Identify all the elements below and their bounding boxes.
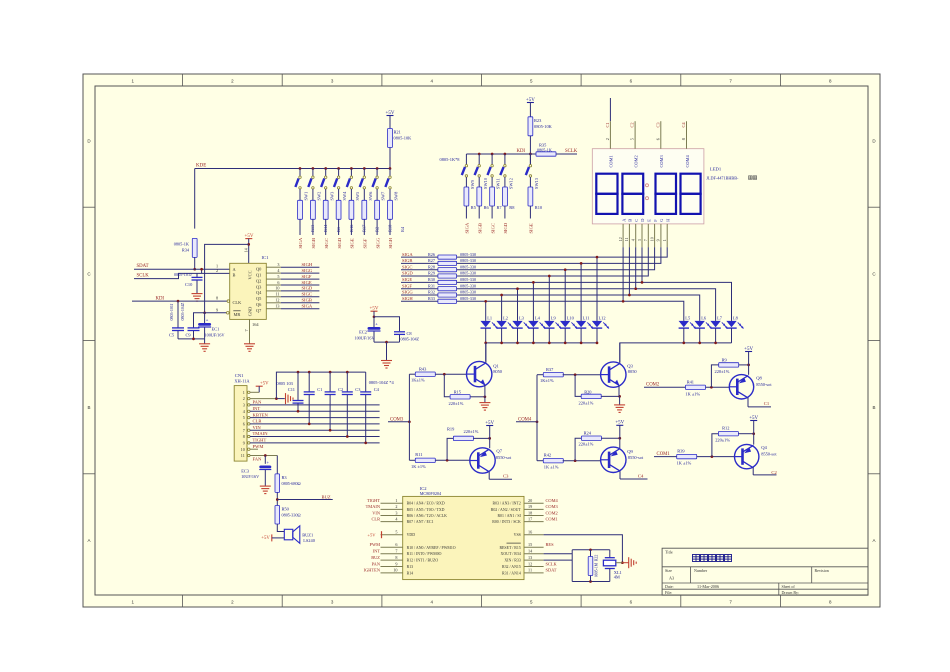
pin 12 bbox=[502, 561, 544, 569]
svg-text:+5V: +5V bbox=[367, 532, 376, 537]
svg-text:10UF/16V: 10UF/16V bbox=[241, 474, 259, 479]
node C3 bbox=[655, 122, 660, 128]
svg-text:11-Mar-2006: 11-Mar-2006 bbox=[697, 584, 719, 589]
pin 4 bbox=[381, 516, 434, 524]
switch SW2 bbox=[308, 169, 321, 201]
svg-text:1: 1 bbox=[395, 498, 397, 503]
svg-text:INT: INT bbox=[373, 549, 381, 554]
svg-text:SW13: SW13 bbox=[534, 177, 539, 189]
resistor R32 bbox=[428, 290, 476, 297]
transistor Q8 bbox=[729, 375, 773, 407]
switch SW1 bbox=[295, 169, 308, 201]
resistor R8 bbox=[503, 187, 516, 210]
wire bbox=[484, 300, 487, 321]
svg-text:SIGC: SIGC bbox=[402, 264, 412, 269]
svg-text:Q3: Q3 bbox=[627, 363, 633, 368]
wire bbox=[338, 189, 340, 200]
svg-text:R07 / AN7 / EC1: R07 / AN7 / EC1 bbox=[407, 520, 434, 524]
svg-text:KBTEN: KBTEN bbox=[253, 412, 269, 417]
svg-text:SW11: SW11 bbox=[496, 178, 501, 189]
svg-text:PWM: PWM bbox=[253, 444, 264, 449]
pin 3 (segment D) bbox=[637, 219, 645, 248]
resistor R10 bbox=[528, 187, 543, 210]
LED L5 bbox=[679, 316, 696, 343]
node C2 bbox=[771, 470, 777, 475]
wire bbox=[544, 548, 610, 581]
svg-text:8550-sot: 8550-sot bbox=[761, 452, 777, 457]
node TIGHT bbox=[367, 498, 380, 503]
svg-text:VIN: VIN bbox=[372, 510, 381, 515]
transistor Q4 bbox=[734, 444, 777, 475]
wire bbox=[634, 287, 715, 321]
svg-text:3: 3 bbox=[243, 403, 245, 408]
svg-text:8: 8 bbox=[216, 296, 218, 301]
svg-text:CLR: CLR bbox=[253, 419, 263, 424]
wire bbox=[389, 148, 391, 169]
svg-text:11: 11 bbox=[624, 237, 629, 241]
svg-text:C11: C11 bbox=[288, 387, 295, 392]
pin 1 (segment H) bbox=[662, 218, 670, 248]
wire bbox=[299, 219, 301, 235]
svg-text:1: 1 bbox=[243, 390, 245, 395]
svg-text:A: A bbox=[872, 538, 875, 543]
pin 8 (COM4) bbox=[681, 121, 687, 149]
pin 19 bbox=[491, 504, 544, 512]
power +5V (EC2) bbox=[370, 307, 379, 319]
wire bbox=[739, 364, 750, 367]
svg-text:L7: L7 bbox=[717, 316, 723, 321]
wire bbox=[457, 247, 661, 263]
wire bbox=[435, 438, 470, 461]
svg-text:R34: R34 bbox=[182, 248, 190, 253]
node KDI bus bbox=[466, 149, 536, 155]
svg-text:Q8: Q8 bbox=[756, 375, 762, 380]
wire bbox=[363, 219, 365, 235]
svg-text:+5V: +5V bbox=[485, 421, 494, 426]
svg-text:BUZ1: BUZ1 bbox=[302, 533, 313, 538]
svg-text:R22: R22 bbox=[594, 555, 599, 562]
node COM3 bbox=[546, 504, 559, 509]
svg-text:SIGG: SIGG bbox=[302, 268, 313, 273]
svg-text:L5: L5 bbox=[685, 316, 691, 321]
pin 12 (Q6) bbox=[266, 298, 319, 303]
svg-text:EC2: EC2 bbox=[359, 330, 367, 335]
crystal XL1 bbox=[603, 550, 622, 582]
svg-text:3: 3 bbox=[277, 262, 279, 267]
svg-text:R8: R8 bbox=[509, 205, 515, 210]
svg-text:R10: R10 bbox=[535, 205, 543, 210]
pin 6 bbox=[243, 422, 380, 427]
connector CN1 XH-11A body bbox=[234, 373, 250, 461]
node SIGF bbox=[302, 274, 312, 279]
svg-text:R20: R20 bbox=[584, 389, 592, 394]
wire bbox=[389, 189, 391, 200]
svg-text:11: 11 bbox=[241, 453, 245, 458]
LED L7 bbox=[710, 316, 727, 343]
pin 10 (Q4) bbox=[266, 286, 319, 291]
resistor R33 bbox=[428, 296, 476, 303]
wire bbox=[470, 395, 486, 398]
svg-text:0805-104Z: 0805-104Z bbox=[401, 336, 420, 341]
node COM4 bbox=[516, 417, 538, 423]
svg-text:1K ±1%: 1K ±1% bbox=[677, 460, 692, 465]
LED L4 bbox=[528, 316, 545, 343]
wire bbox=[532, 281, 535, 321]
svg-text:L8: L8 bbox=[733, 316, 739, 321]
node COM1 bbox=[546, 516, 558, 521]
pin 5 (COM2) bbox=[630, 121, 636, 149]
svg-text:R12 / INT1 / BUZO: R12 / INT1 / BUZO bbox=[407, 559, 439, 563]
wire bbox=[408, 374, 410, 460]
LED L8 bbox=[726, 316, 743, 343]
svg-text:SW8: SW8 bbox=[394, 191, 399, 201]
svg-text:0805-330Ω: 0805-330Ω bbox=[282, 513, 301, 518]
svg-text:0805-104Z *4: 0805-104Z *4 bbox=[369, 380, 395, 385]
wire bbox=[465, 206, 467, 219]
svg-text:R02 / AN2 / SOUT: R02 / AN2 / SOUT bbox=[491, 508, 522, 512]
svg-text:XOUT / R34: XOUT / R34 bbox=[501, 552, 521, 556]
resistor R24 bbox=[579, 430, 602, 446]
node CLR bbox=[371, 516, 380, 521]
svg-text:COM3: COM3 bbox=[546, 504, 559, 509]
svg-text:C4: C4 bbox=[638, 474, 644, 479]
LED L12 bbox=[592, 316, 609, 343]
resistor R4 bbox=[388, 200, 406, 232]
svg-text:R39: R39 bbox=[677, 448, 685, 453]
wire bbox=[350, 219, 352, 235]
transistor Q1 bbox=[467, 343, 503, 397]
svg-text:SW10: SW10 bbox=[483, 177, 488, 189]
pin 9 bbox=[381, 561, 414, 569]
svg-text:R10 / AN0 / AVREF / PWM1O: R10 / AN0 / AVREF / PWM1O bbox=[407, 546, 456, 550]
svg-text:20: 20 bbox=[528, 498, 532, 503]
pin 18 bbox=[497, 510, 543, 518]
svg-text:R14: R14 bbox=[407, 571, 414, 575]
svg-text:0805-330: 0805-330 bbox=[460, 258, 476, 263]
svg-text:+5V: +5V bbox=[749, 416, 758, 421]
svg-text:13: 13 bbox=[275, 304, 279, 309]
svg-text:R3: R3 bbox=[282, 475, 288, 480]
capacitor C3 bbox=[342, 372, 361, 438]
ground bbox=[381, 361, 392, 369]
svg-text:C5: C5 bbox=[169, 333, 175, 338]
wire bbox=[620, 342, 732, 362]
wire bbox=[457, 247, 655, 269]
svg-text:Q1: Q1 bbox=[256, 272, 261, 277]
node BUZ bbox=[371, 555, 380, 560]
wire bbox=[200, 268, 203, 274]
capacitor C11 bbox=[276, 372, 303, 412]
svg-text:R32 / AN15: R32 / AN15 bbox=[502, 565, 521, 569]
wire bbox=[484, 342, 598, 362]
node SIGB bbox=[401, 258, 438, 263]
node COM2 bbox=[644, 383, 685, 388]
svg-text:SIGA: SIGA bbox=[465, 222, 470, 233]
svg-text:Revision: Revision bbox=[815, 568, 829, 573]
node TMAIN bbox=[366, 504, 381, 509]
wire bbox=[641, 281, 732, 321]
svg-text:SW6: SW6 bbox=[368, 191, 373, 201]
pin 2 (COM1) bbox=[605, 98, 611, 149]
capacitor C2 bbox=[325, 372, 344, 431]
resistor R19 bbox=[447, 427, 479, 441]
svg-text:PWM: PWM bbox=[370, 542, 381, 547]
svg-text:8550-sot: 8550-sot bbox=[628, 455, 644, 460]
wire bbox=[194, 169, 196, 229]
svg-text:R30: R30 bbox=[428, 277, 435, 282]
svg-text:+5V: +5V bbox=[744, 347, 753, 352]
display digit 4 bbox=[681, 174, 701, 214]
resistor R28 bbox=[428, 264, 476, 271]
svg-text:R7: R7 bbox=[497, 205, 503, 210]
svg-text:R37: R37 bbox=[546, 367, 554, 372]
svg-text:3: 3 bbox=[395, 510, 397, 515]
svg-text:IC1: IC1 bbox=[262, 255, 270, 260]
svg-text:A: A bbox=[87, 538, 90, 543]
svg-text:5: 5 bbox=[277, 274, 279, 279]
svg-text:SIGG: SIGG bbox=[375, 237, 380, 248]
wire bbox=[504, 206, 506, 219]
svg-text:PAN: PAN bbox=[372, 561, 381, 566]
power +5V (Q4) bbox=[749, 416, 758, 445]
svg-text:SIGH: SIGH bbox=[302, 262, 313, 267]
svg-text:SIGA: SIGA bbox=[298, 237, 303, 248]
svg-text:SIGA: SIGA bbox=[302, 304, 313, 309]
node SIGF bbox=[401, 283, 438, 288]
svg-text:SW7: SW7 bbox=[381, 191, 386, 201]
svg-text:IGHTEN: IGHTEN bbox=[364, 568, 381, 573]
svg-text:11: 11 bbox=[275, 292, 279, 297]
svg-text:FAN: FAN bbox=[253, 457, 263, 462]
node SIGB bbox=[302, 298, 312, 303]
svg-text:100UF/16V: 100UF/16V bbox=[354, 335, 374, 340]
ground bbox=[479, 403, 490, 411]
svg-text:GND: GND bbox=[248, 307, 253, 317]
LED L1 bbox=[481, 316, 498, 343]
svg-text:9: 9 bbox=[395, 561, 397, 566]
wire bbox=[544, 535, 624, 564]
node VIN bbox=[253, 425, 262, 430]
svg-text:R5: R5 bbox=[471, 205, 477, 210]
svg-text:L4: L4 bbox=[535, 316, 541, 321]
svg-text:C8: C8 bbox=[407, 331, 413, 336]
svg-text:RES: RES bbox=[546, 542, 555, 547]
power +5V (R23) bbox=[526, 98, 535, 117]
wire bbox=[529, 136, 532, 165]
resistor R5 bbox=[464, 187, 477, 210]
svg-text:Q4: Q4 bbox=[761, 445, 767, 450]
power +5V (CN1) bbox=[256, 382, 269, 393]
svg-text:MR: MR bbox=[234, 312, 241, 317]
node SDAT bbox=[134, 264, 230, 269]
title block bbox=[662, 548, 868, 595]
svg-text:+5V: +5V bbox=[615, 421, 624, 426]
pin 6 bbox=[381, 542, 456, 550]
svg-text:L1: L1 bbox=[487, 316, 492, 321]
wire bbox=[563, 438, 601, 462]
svg-text:EC3: EC3 bbox=[241, 469, 250, 474]
ground bbox=[192, 294, 203, 302]
wire bbox=[178, 338, 205, 344]
wire bbox=[457, 247, 630, 295]
svg-text:Q0: Q0 bbox=[256, 267, 262, 272]
svg-text:CLR: CLR bbox=[371, 516, 380, 521]
svg-text:1K ±1%: 1K ±1% bbox=[411, 464, 426, 469]
node SDAT bbox=[546, 568, 557, 573]
svg-text:Q7: Q7 bbox=[496, 449, 502, 454]
svg-text:8: 8 bbox=[681, 138, 686, 140]
svg-text:SW4: SW4 bbox=[342, 191, 347, 201]
resistor R11 bbox=[409, 452, 435, 469]
LED L11 bbox=[576, 316, 593, 343]
node KBTEN bbox=[253, 412, 269, 417]
wire bbox=[529, 177, 531, 187]
svg-text:JLDF-4471BHBB-: JLDF-4471BHBB- bbox=[706, 176, 739, 181]
node PAN bbox=[372, 561, 381, 566]
resistor R23 bbox=[528, 117, 553, 136]
node PWM bbox=[370, 542, 381, 547]
node C1 bbox=[605, 122, 610, 127]
svg-text:8050: 8050 bbox=[628, 369, 638, 374]
node PWM bbox=[253, 444, 264, 449]
display colon bbox=[646, 184, 649, 200]
svg-text:B: B bbox=[872, 405, 875, 410]
power +5V (BUZ1) bbox=[261, 534, 284, 541]
wire bbox=[374, 341, 400, 361]
node SIGD bbox=[302, 286, 313, 291]
svg-text:0805-330: 0805-330 bbox=[460, 283, 476, 288]
pin 14 (VCC) bbox=[243, 247, 248, 252]
svg-text:7: 7 bbox=[243, 428, 245, 433]
svg-text:12: 12 bbox=[528, 561, 532, 566]
wire bbox=[193, 257, 196, 270]
svg-text:0805-330: 0805-330 bbox=[460, 271, 476, 276]
wire bbox=[389, 219, 391, 235]
svg-text:Title: Title bbox=[665, 549, 673, 554]
svg-text:4M: 4M bbox=[614, 575, 620, 580]
svg-text:0805-1K: 0805-1K bbox=[174, 242, 190, 247]
svg-text:L2: L2 bbox=[503, 316, 508, 321]
pin 10 bbox=[381, 568, 414, 576]
svg-text:COM1: COM1 bbox=[609, 155, 614, 167]
pin 5 bbox=[381, 530, 416, 538]
ground bbox=[614, 405, 625, 413]
LED L10 bbox=[560, 316, 577, 343]
switch SW8 bbox=[385, 169, 398, 201]
resistor R17 bbox=[349, 200, 367, 232]
svg-text:10: 10 bbox=[275, 286, 279, 291]
pin 7 bbox=[243, 428, 380, 433]
svg-text:R9: R9 bbox=[722, 357, 728, 362]
power +5V (Q9) bbox=[615, 421, 624, 448]
wire bbox=[484, 397, 486, 403]
pin 13 (Q7) bbox=[266, 304, 319, 309]
svg-text:VDD: VDD bbox=[407, 533, 416, 537]
svg-text:10: 10 bbox=[241, 447, 245, 452]
wire bbox=[473, 437, 491, 440]
svg-text:SIGB: SIGB bbox=[402, 258, 412, 263]
svg-text:220±1%: 220±1% bbox=[715, 438, 730, 443]
svg-text:1K ±1%: 1K ±1% bbox=[544, 464, 559, 469]
svg-text:0805-10K: 0805-10K bbox=[394, 136, 413, 141]
node COM2 bbox=[546, 510, 558, 515]
svg-text:Q4: Q4 bbox=[256, 290, 262, 295]
power +5V (Q7) bbox=[485, 421, 494, 448]
node RES bbox=[546, 542, 555, 547]
wire bbox=[376, 219, 378, 235]
svg-text:COM4: COM4 bbox=[685, 154, 690, 167]
svg-text:R31 / AN14: R31 / AN14 bbox=[502, 571, 521, 575]
node SCLK bbox=[565, 149, 578, 154]
svg-text:C1: C1 bbox=[764, 401, 770, 406]
pin 11 (segment B) bbox=[624, 219, 632, 248]
svg-text:C: C bbox=[634, 219, 639, 222]
svg-text:SCLK: SCLK bbox=[565, 149, 578, 154]
node IGHTEN bbox=[364, 568, 381, 573]
svg-text:L3: L3 bbox=[519, 316, 525, 321]
svg-text:220±1%: 220±1% bbox=[449, 401, 464, 406]
svg-text:0805 103: 0805 103 bbox=[276, 381, 293, 386]
resistor R20 bbox=[579, 389, 602, 405]
svg-text:3: 3 bbox=[637, 239, 642, 241]
svg-text:SW9: SW9 bbox=[470, 179, 475, 189]
pin 9 (MR) bbox=[216, 308, 229, 315]
wire bbox=[312, 189, 314, 200]
svg-text:220±1%: 220±1% bbox=[579, 401, 594, 406]
resistor R2 bbox=[362, 200, 380, 232]
wire bbox=[194, 313, 227, 328]
node SIGE bbox=[401, 277, 438, 282]
node CLR bbox=[253, 419, 263, 424]
node SIGG bbox=[375, 237, 380, 248]
node SIGE bbox=[529, 223, 534, 233]
svg-text:SCLK: SCLK bbox=[137, 274, 150, 279]
svg-text:Size: Size bbox=[665, 568, 672, 573]
wire bbox=[276, 371, 365, 399]
node INT bbox=[373, 549, 381, 554]
pin 5 bbox=[243, 415, 380, 420]
wire bbox=[601, 395, 621, 398]
resistor R1 bbox=[323, 200, 341, 232]
svg-text:Sheet of: Sheet of bbox=[782, 584, 796, 589]
svg-text:0805-1M: 0805-1M bbox=[595, 562, 599, 577]
svg-text:0805-1K: 0805-1K bbox=[537, 148, 552, 153]
svg-text:VIN: VIN bbox=[253, 425, 262, 430]
svg-text:VCC: VCC bbox=[248, 270, 253, 279]
svg-text:0805-101J: 0805-101J bbox=[169, 303, 174, 320]
svg-text:Q7: Q7 bbox=[256, 308, 262, 313]
ground (PAN) bbox=[286, 393, 294, 404]
pin 20 bbox=[492, 498, 543, 506]
node SIGB bbox=[311, 238, 316, 248]
resistor R9 bbox=[715, 357, 739, 374]
switch SW4 bbox=[334, 169, 347, 201]
wire bbox=[478, 177, 480, 187]
svg-text:18: 18 bbox=[528, 510, 532, 515]
pin 8 bbox=[381, 555, 439, 563]
svg-text:C1: C1 bbox=[605, 122, 610, 127]
node SIGD bbox=[503, 222, 508, 233]
node SIGG bbox=[401, 290, 438, 295]
wire bbox=[299, 189, 301, 200]
svg-text:1K±1%: 1K±1% bbox=[411, 378, 425, 383]
wire bbox=[325, 219, 327, 235]
node SIGA bbox=[298, 237, 303, 248]
pin 6 (COM3) bbox=[655, 121, 661, 149]
svg-text:2: 2 bbox=[395, 504, 397, 509]
svg-text:B: B bbox=[628, 219, 633, 222]
svg-text:SIGD: SIGD bbox=[503, 222, 508, 233]
